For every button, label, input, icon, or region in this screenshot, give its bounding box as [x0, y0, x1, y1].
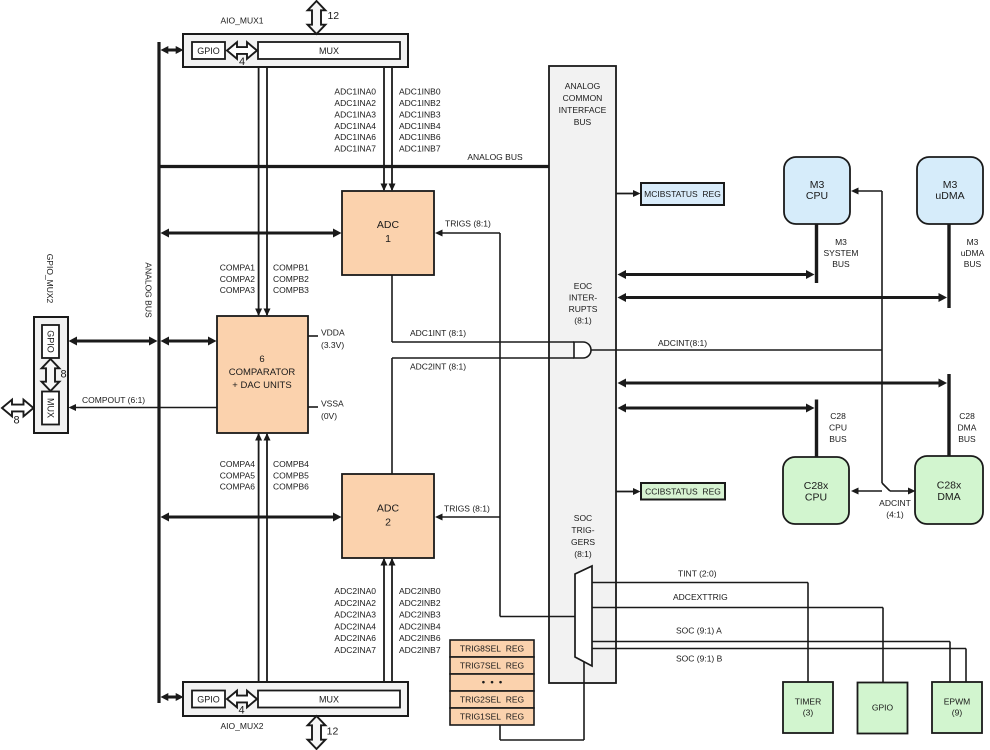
svg-text:ANALOG BUS: ANALOG BUS: [467, 152, 523, 162]
block C28x CPU: [783, 457, 849, 524]
svg-text:(0V): (0V): [321, 411, 337, 421]
labels ADC1INB: [399, 87, 441, 154]
block C28x DMA: [915, 456, 983, 524]
svg-text:TRIGS (8:1): TRIGS (8:1): [444, 504, 490, 514]
svg-text:CPU: CPU: [829, 423, 847, 433]
wire bus to AIO_MUX2: [161, 693, 184, 701]
svg-text:VDDA: VDDA: [321, 328, 345, 338]
svg-text:COMMON: COMMON: [563, 93, 603, 103]
svg-text:ADC2INB7: ADC2INB7: [399, 645, 441, 655]
block arrow GPIO-MUX 4: [227, 42, 257, 68]
svg-text:COMPB5: COMPB5: [273, 470, 309, 480]
svg-text:M3: M3: [835, 237, 847, 247]
svg-text:ADC1INB4: ADC1INB4: [399, 121, 441, 131]
block GPIO: [858, 683, 908, 734]
svg-text:uDMA: uDMA: [961, 248, 985, 258]
svg-text:AIO_MUX2: AIO_MUX2: [221, 721, 264, 731]
svg-text:GPIO: GPIO: [872, 703, 894, 713]
wire bus to ADC2: [161, 513, 342, 522]
svg-text:ADC2INA7: ADC2INA7: [334, 645, 376, 655]
svg-text:COMPB2: COMPB2: [273, 274, 309, 284]
svg-text:1: 1: [385, 233, 391, 245]
block arrow GPIO-MUX 4 bottom: [227, 691, 257, 717]
svg-text:TIMER: TIMER: [795, 697, 821, 707]
mux SOC triggers: [575, 566, 592, 666]
wire bus to ADC1: [161, 229, 342, 238]
svg-text:COMPA5: COMPA5: [220, 470, 256, 480]
block AIO_MUX1: [183, 16, 408, 68]
svg-text:TRIGS (8:1): TRIGS (8:1): [445, 219, 491, 229]
svg-text:ADCINT(8:1): ADCINT(8:1): [658, 338, 707, 348]
svg-text:MCIBSTATUS REG: MCIBSTATUS REG: [644, 189, 721, 199]
svg-text:ADC1INB7: ADC1INB7: [399, 144, 441, 154]
register MCIBSTATUS REG: [641, 183, 724, 205]
wire TRIGSEL to mux: [500, 662, 584, 740]
svg-text:INTER-: INTER-: [569, 293, 598, 303]
svg-text:ADC1INB3: ADC1INB3: [399, 109, 441, 119]
svg-text:BUS: BUS: [964, 259, 982, 269]
svg-text:ADC: ADC: [377, 219, 400, 231]
wire ADCEXTTRIG: [592, 592, 883, 682]
svg-text:CPU: CPU: [805, 492, 827, 504]
wire bus to AIO_MUX1: [161, 46, 184, 54]
svg-text:COMPA4: COMPA4: [220, 459, 256, 469]
svg-text:GPIO: GPIO: [197, 46, 220, 56]
svg-text:• • •: • • •: [482, 677, 503, 688]
svg-text:M3: M3: [967, 237, 979, 247]
svg-text:ADC2INT (8:1): ADC2INT (8:1): [410, 362, 466, 372]
wire EOC to M3 system bus: [618, 270, 815, 279]
analog common interface bus box: [549, 66, 616, 683]
svg-text:GPIO_MUX2: GPIO_MUX2: [45, 254, 55, 304]
svg-text:MUX: MUX: [46, 398, 56, 418]
svg-text:12: 12: [327, 10, 339, 22]
wire ADCINT(8:1): [591, 338, 882, 350]
registers TRIGxSEL stack: [450, 640, 534, 725]
labels ADC1INA: [334, 87, 376, 154]
wire TRIGS to ADC1: [435, 219, 500, 617]
svg-text:CPU: CPU: [806, 190, 828, 202]
wire ADCINT to M3 CPU: [851, 188, 882, 351]
svg-text:MUX: MUX: [319, 46, 339, 56]
svg-text:COMPA2: COMPA2: [220, 274, 256, 284]
svg-text:ADC1INA7: ADC1INA7: [334, 144, 376, 154]
svg-text:TRIG8SEL REG: TRIG8SEL REG: [460, 644, 524, 654]
pin VSSA: [308, 399, 344, 422]
svg-text:ADC1INA2: ADC1INA2: [334, 98, 376, 108]
wire EOC to C28 CPU bus: [618, 404, 815, 413]
svg-text:(9): (9): [952, 708, 963, 718]
svg-text:6: 6: [259, 354, 264, 365]
svg-text:ADC2INA4: ADC2INA4: [334, 621, 376, 631]
svg-text:C28x: C28x: [937, 480, 962, 492]
svg-text:C28x: C28x: [804, 480, 829, 492]
svg-text:GERS: GERS: [571, 537, 595, 547]
wire ANALOG BUS vertical: [144, 42, 160, 703]
svg-text:DMA: DMA: [958, 423, 977, 433]
svg-text:+ DAC UNITS: + DAC UNITS: [232, 380, 291, 391]
svg-text:SOC (9:1) A: SOC (9:1) A: [676, 626, 722, 636]
wire MUX2 to ADC2 inputs: [381, 558, 396, 683]
block arrow 12 top: [308, 1, 340, 34]
block ADC2: [342, 474, 434, 558]
wire EOC to C28 DMA bus: [618, 379, 948, 388]
svg-text:COMPA1: COMPA1: [220, 263, 256, 273]
svg-text:C28: C28: [830, 411, 846, 421]
svg-text:uDMA: uDMA: [935, 190, 964, 202]
svg-text:(3.3V): (3.3V): [321, 340, 344, 350]
block EPWM (9): [932, 682, 982, 733]
svg-text:COMPB1: COMPB1: [273, 263, 309, 273]
svg-text:SOC: SOC: [574, 513, 592, 523]
wire MUX1 to comparator COMPA/COMPB: [255, 67, 270, 316]
svg-text:VSSA: VSSA: [321, 399, 344, 409]
svg-text:8: 8: [60, 369, 66, 381]
svg-text:ADC2INA3: ADC2INA3: [334, 610, 376, 620]
svg-text:ADC1INB2: ADC1INB2: [399, 98, 441, 108]
wire GPIO_MUX2 to bus: [69, 337, 158, 346]
labels COMPA1-3: [220, 263, 256, 296]
bus C28 CPU BUS stub: [817, 400, 848, 458]
svg-text:(8:1): (8:1): [574, 316, 592, 326]
svg-text:ADC1INA0: ADC1INA0: [334, 87, 376, 97]
svg-text:TRIG-: TRIG-: [571, 525, 594, 535]
svg-text:BUS: BUS: [958, 434, 976, 444]
svg-text:ADCEXTTRIG: ADCEXTTRIG: [673, 592, 728, 602]
pin VDDA: [308, 328, 345, 351]
svg-text:ADC1INB6: ADC1INB6: [399, 132, 441, 142]
wire to CCIBSTATUS: [616, 488, 641, 495]
svg-text:SYSTEM: SYSTEM: [824, 248, 859, 258]
wire SOC A: [592, 626, 950, 683]
svg-text:TINT (2:0): TINT (2:0): [678, 569, 717, 579]
wire bus to comparator: [161, 337, 217, 346]
svg-text:ADC1INA3: ADC1INA3: [334, 109, 376, 119]
bus M3 uDMA BUS stub: [949, 224, 985, 308]
svg-text:SOC (9:1) B: SOC (9:1) B: [676, 654, 723, 664]
svg-text:RUPTS: RUPTS: [569, 304, 598, 314]
register CCIBSTATUS REG: [641, 483, 725, 500]
wire TRIGS to ADC2: [435, 504, 500, 521]
svg-text:TRIG7SEL REG: TRIG7SEL REG: [460, 661, 524, 671]
svg-text:GPIO: GPIO: [46, 330, 56, 353]
svg-text:ADC1INT (8:1): ADC1INT (8:1): [410, 328, 466, 338]
merge gate ADCINT: [574, 342, 591, 358]
wire MUX1 to ADC1 inputs: [381, 67, 396, 191]
svg-text:BUS: BUS: [574, 117, 592, 127]
block TIMER (3): [783, 682, 833, 733]
svg-text:ADC2INB3: ADC2INB3: [399, 610, 441, 620]
svg-text:COMPB3: COMPB3: [273, 285, 309, 295]
wire ADCINT to C28x with jog: [851, 350, 916, 520]
svg-text:ADC1INA6: ADC1INA6: [334, 132, 376, 142]
wire TINT: [592, 569, 808, 683]
block arrow GPIO-MUX 8: [42, 359, 67, 391]
svg-text:ADC1INB0: ADC1INB0: [399, 87, 441, 97]
svg-text:COMPOUT (6:1): COMPOUT (6:1): [82, 395, 145, 405]
svg-text:ADC2INA6: ADC2INA6: [334, 633, 376, 643]
block 6 comparator + DAC units: [217, 316, 308, 433]
svg-text:12: 12: [327, 726, 339, 738]
block ADC1: [342, 191, 434, 275]
labels COMPB4-6: [273, 459, 309, 492]
svg-text:DMA: DMA: [937, 491, 960, 503]
block arrow external 8: [2, 400, 34, 427]
block AIO_MUX2: [183, 682, 408, 731]
svg-text:2: 2: [385, 517, 391, 529]
wire MUX2 to comparator COMPA/B 4-6: [255, 433, 270, 683]
wire COMPOUT: [69, 395, 218, 411]
bus C28 DMA BUS stub: [949, 374, 977, 456]
labels COMPB1-3: [273, 263, 309, 296]
svg-text:BUS: BUS: [832, 259, 850, 269]
svg-text:ADC2INB4: ADC2INB4: [399, 621, 441, 631]
labels COMPA4-6: [220, 459, 256, 492]
svg-text:COMPA3: COMPA3: [220, 285, 256, 295]
svg-text:MUX: MUX: [319, 695, 339, 705]
svg-text:4: 4: [239, 56, 245, 68]
svg-text:(8:1): (8:1): [574, 549, 592, 559]
svg-text:INTERFACE: INTERFACE: [559, 105, 607, 115]
svg-text:ANALOG BUS: ANALOG BUS: [144, 262, 154, 318]
svg-text:COMPARATOR: COMPARATOR: [229, 367, 296, 378]
svg-text:8: 8: [13, 415, 19, 427]
svg-text:COMPA6: COMPA6: [220, 482, 256, 492]
labels ADC2INB: [399, 586, 441, 655]
svg-text:ADC2INB2: ADC2INB2: [399, 598, 441, 608]
svg-text:4: 4: [238, 705, 244, 717]
block M3 CPU: [784, 157, 850, 224]
wire EOC to M3 uDMA bus: [618, 293, 948, 302]
svg-text:BUS: BUS: [829, 434, 847, 444]
block GPIO_MUX2: [34, 254, 68, 433]
svg-text:COMPB4: COMPB4: [273, 459, 309, 469]
svg-text:(4:1): (4:1): [886, 510, 904, 520]
svg-text:ADC2INA2: ADC2INA2: [334, 598, 376, 608]
svg-text:C28: C28: [959, 411, 975, 421]
wire ANALOG BUS horizontal: [158, 152, 550, 167]
svg-text:ADC1INA4: ADC1INA4: [334, 121, 376, 131]
svg-text:TRIG2SEL REG: TRIG2SEL REG: [460, 695, 524, 705]
wire ADC2INT: [392, 358, 574, 474]
block arrow 12 bottom: [308, 716, 339, 749]
wire mux output to TRIGS: [500, 616, 575, 618]
wire ADC1INT: [392, 275, 574, 342]
svg-text:EOC: EOC: [574, 281, 592, 291]
svg-text:AIO_MUX1: AIO_MUX1: [221, 16, 264, 26]
svg-text:ADC: ADC: [377, 503, 400, 515]
svg-text:ADCINT: ADCINT: [879, 498, 911, 508]
svg-text:CCIBSTATUS REG: CCIBSTATUS REG: [645, 487, 721, 497]
svg-text:(3): (3): [803, 708, 814, 718]
svg-text:EPWM: EPWM: [944, 697, 970, 707]
svg-text:GPIO: GPIO: [197, 695, 220, 705]
labels ADC2INA: [334, 586, 376, 655]
svg-text:ADC2INB6: ADC2INB6: [399, 633, 441, 643]
svg-text:TRIG1SEL REG: TRIG1SEL REG: [460, 712, 524, 722]
svg-text:ANALOG: ANALOG: [565, 81, 600, 91]
bus M3 SYSTEM BUS stub: [817, 224, 859, 283]
block M3 uDMA: [917, 157, 983, 224]
svg-text:ADC2INB0: ADC2INB0: [399, 586, 441, 596]
wire to MCIBSTATUS: [616, 190, 641, 197]
svg-text:ADC2INA0: ADC2INA0: [334, 586, 376, 596]
svg-text:COMPB6: COMPB6: [273, 482, 309, 492]
wire SOC B: [592, 649, 966, 683]
